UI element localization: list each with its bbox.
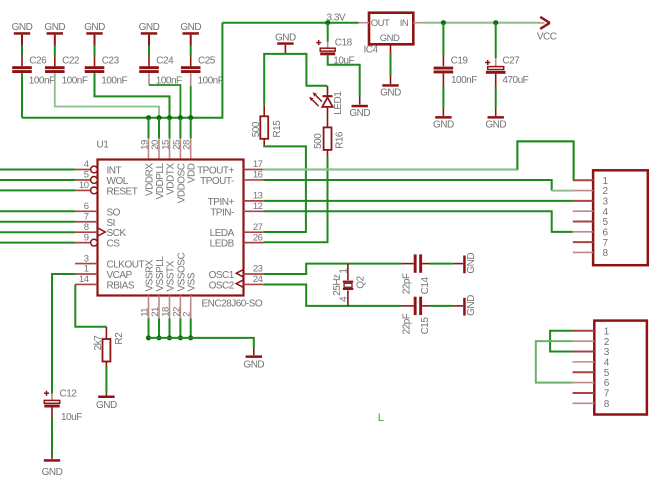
svg-text:500: 500 (251, 121, 262, 137)
svg-text:18: 18 (161, 307, 172, 317)
resistor R15 500 (251, 105, 283, 145)
svg-text:RBIAS: RBIAS (107, 280, 135, 291)
wire VDD rail to U1 pin 19 (148, 118, 150, 139)
pin stub U1 pin 17 (244, 159, 264, 170)
capacitor C14 22pF (401, 254, 431, 294)
IC U1 ENC28J60-SO (97, 140, 263, 310)
svg-text:10uF: 10uF (61, 412, 82, 423)
pin stub U1 pin 11 (140, 296, 151, 319)
svg-text:17: 17 (253, 159, 263, 170)
svg-text:14: 14 (79, 274, 89, 285)
wire SCK to left edge (0, 231, 75, 233)
ground below U1 (243, 349, 264, 371)
supply symbol VCC (537, 17, 557, 43)
wire VDD rail to U1 pin 28 (190, 118, 192, 139)
wire TPOUT+ to SV1 pin 1 (263, 141, 573, 180)
pin stub U1 pin 22 (171, 296, 182, 319)
wire CS to left edge (0, 242, 75, 244)
wire VCC tap to C19 (442, 23, 444, 56)
ground above C23 (84, 22, 105, 46)
svg-text:C23: C23 (102, 56, 120, 67)
svg-text:4: 4 (84, 159, 89, 170)
svg-text:25Hz: 25Hz (332, 274, 343, 296)
junction node ground rail / pin 11 (146, 335, 151, 340)
pin stub U1 pin 18 (161, 296, 172, 319)
svg-text:GND: GND (380, 33, 400, 44)
pin stub U1 pin 2 (182, 296, 193, 319)
svg-text:VSSTX: VSSTX (166, 260, 177, 291)
svg-text:CS: CS (107, 239, 121, 250)
svg-text:OSC2: OSC2 (209, 280, 235, 291)
svg-text:27: 27 (253, 222, 263, 233)
svg-text:SO: SO (107, 207, 121, 218)
wire TPIN- to SV1 pin 6 (263, 211, 573, 232)
svg-text:2: 2 (182, 312, 193, 317)
svg-text:100nF: 100nF (62, 76, 88, 87)
pin stub U1 pin 15 (169, 138, 171, 159)
svg-text:IC4: IC4 (364, 44, 379, 55)
svg-text:23: 23 (253, 264, 263, 275)
wire GND to C25 (190, 46, 192, 57)
svg-text:VDDRX: VDDRX (145, 163, 156, 196)
wire RBIAS to R2 (75, 284, 106, 326)
svg-text:LEDB: LEDB (210, 239, 235, 250)
svg-text:R2: R2 (114, 332, 125, 345)
svg-text:L: L (378, 412, 384, 424)
wire OSC2 to crystal rail (263, 284, 401, 305)
svg-text:10: 10 (79, 180, 89, 191)
junction node VDD rail / pin column 4 (178, 115, 183, 120)
resistor R2 2k7 (93, 327, 125, 367)
wire VDD rail to U1 pin 20 (158, 118, 160, 139)
label 3.3V (327, 13, 346, 24)
svg-text:VCC: VCC (537, 32, 557, 43)
ground below R2 (96, 393, 117, 411)
svg-text:GND: GND (349, 108, 370, 119)
pin number 28 (182, 140, 193, 150)
svg-text:IN: IN (400, 18, 409, 29)
svg-text:22pF: 22pF (401, 313, 412, 334)
svg-text:5: 5 (84, 170, 89, 181)
svg-text:20: 20 (150, 140, 161, 150)
ground below C12 (42, 455, 63, 478)
svg-text:15: 15 (161, 140, 172, 150)
pin number 15 (161, 140, 172, 150)
svg-text:C14: C14 (420, 277, 431, 295)
svg-text:500: 500 (313, 133, 324, 149)
svg-text:R16: R16 (334, 131, 345, 149)
pin stub U1 pin 19 (148, 138, 150, 159)
wire C27 to ground (495, 87, 497, 108)
junction node VDD rail / pin column 2 (157, 115, 162, 120)
svg-text:VDD: VDD (187, 163, 198, 183)
svg-text:GND: GND (96, 400, 117, 411)
svg-text:100nF: 100nF (198, 76, 224, 87)
svg-text:C19: C19 (451, 55, 469, 66)
svg-text:100nF: 100nF (451, 75, 477, 86)
svg-text:C25: C25 (198, 56, 216, 67)
wire ground rail (149, 338, 254, 349)
pin stub U1 pin 3 (75, 253, 98, 264)
ground right of C15 (453, 295, 477, 316)
svg-text:Q2: Q2 (356, 275, 367, 288)
pin lead C24 (148, 73, 150, 85)
pin stub U1 pin 13 (244, 191, 264, 202)
svg-text:SCK: SCK (107, 228, 127, 239)
svg-text:24: 24 (253, 274, 263, 285)
svg-text:12: 12 (253, 201, 263, 212)
pin stub U1 pin 16 (244, 170, 264, 181)
junction node ground rail / pin 21 (157, 335, 162, 340)
wire TPOUT- pale segment into SV1 pin 2 (552, 190, 573, 192)
pin stub U1 pin 7 (75, 211, 98, 222)
svg-text:GND: GND (466, 295, 477, 316)
resistor R16 500 (313, 127, 345, 157)
svg-text:7: 7 (84, 211, 89, 222)
wire GND to C22 (54, 46, 56, 57)
wire 3.3V to C18 (327, 23, 329, 42)
svg-text:C24: C24 (156, 56, 174, 67)
wire C24 to VDD rail (149, 85, 180, 118)
svg-text:28: 28 (182, 140, 193, 150)
capacitor C24 100nF (139, 56, 182, 87)
capacitor C18 10uF (316, 37, 354, 66)
wire WOL to left edge (0, 179, 75, 181)
wire LED-section ground rail (264, 54, 327, 105)
svg-text:100nF: 100nF (29, 76, 55, 87)
svg-text:GND: GND (84, 22, 105, 33)
pin stub U1 pin 26 (244, 232, 264, 243)
svg-text:TPOUT+: TPOUT+ (197, 166, 234, 177)
junction node C27 tap (493, 20, 498, 25)
wire C26 to VDD rail (21, 73, 23, 118)
svg-text:1: 1 (84, 264, 89, 275)
wire R16 to U1 LEDB (263, 157, 327, 242)
svg-text:GND: GND (433, 120, 454, 131)
capacitor C19 100nF (434, 55, 478, 86)
pin stub U1 pin 4 (75, 159, 97, 173)
pin stub U1 pin 14 (75, 274, 98, 285)
svg-text:26: 26 (253, 232, 263, 243)
svg-text:100nF: 100nF (101, 76, 127, 87)
wire U1 pin 21 to ground rail (158, 318, 160, 338)
svg-text:3: 3 (84, 253, 89, 264)
junction node ground rail / pin 2 (188, 335, 193, 340)
svg-text:LED1: LED1 (333, 91, 344, 115)
junction node C19 tap (441, 20, 446, 25)
svg-text:U1: U1 (97, 140, 110, 151)
pin number 25 (171, 140, 182, 150)
wire R15 to U1 LEDA (263, 145, 306, 232)
svg-text:6: 6 (84, 201, 89, 212)
wire R2 to ground (105, 367, 107, 394)
svg-text:GND: GND (466, 253, 477, 274)
svg-text:C27: C27 (502, 55, 520, 66)
pin number 19 (140, 140, 151, 150)
pin stub U1 pin 5 (75, 170, 97, 184)
svg-text:VSSRX: VSSRX (145, 259, 156, 291)
capacitor C25 100nF (181, 56, 224, 87)
pin stub U1 pin 20 (158, 138, 160, 159)
svg-text:VCAP: VCAP (107, 270, 133, 281)
ground above C25 (180, 22, 201, 46)
voltage regulator IC4 (359, 13, 423, 56)
wire GND to C23 (94, 46, 96, 57)
svg-text:INT: INT (107, 166, 122, 177)
capacitor C22 100nF (45, 56, 88, 87)
ground above C24 (139, 22, 160, 46)
ground below C19 (433, 107, 454, 130)
wire C19 to ground (442, 87, 444, 108)
crystal Q2 25Hz (332, 264, 367, 306)
wire TPIN+ to SV1 pin 3 (263, 200, 573, 202)
pin stub U1 pin 25 (179, 138, 181, 159)
svg-text:13: 13 (253, 191, 263, 202)
wire IC4 GND pin down (390, 53, 392, 76)
wire C25 to VDD rail (190, 86, 192, 118)
ground below C27 (485, 107, 506, 130)
pin stub U1 pin 6 (75, 201, 98, 212)
capacitor C27 470uF (485, 55, 528, 86)
pin lead C25 (190, 73, 192, 86)
pin stub U1 pin 1 (75, 264, 98, 275)
wire INT to left edge (0, 169, 75, 171)
pin stub U1 pin 28 (190, 138, 192, 159)
capacitor C23 100nF (85, 56, 128, 87)
svg-text:GND: GND (485, 120, 506, 131)
svg-text:470uF: 470uF (502, 75, 528, 86)
pin stub U1 pin 24 (244, 274, 264, 285)
svg-text:GND: GND (275, 32, 296, 43)
wire GND to C24 (148, 46, 150, 57)
svg-text:16: 16 (253, 170, 263, 181)
svg-text:9: 9 (84, 232, 89, 243)
junction node VDD rail / pin column 1 (146, 115, 151, 120)
wire C23 to VDD rail (95, 73, 170, 118)
wire VDD rail to U1 pin 25 (179, 118, 181, 139)
svg-text:8: 8 (84, 222, 89, 233)
wire C15 to ground (430, 305, 453, 307)
junction node VDD rail / pin column 3 (167, 115, 172, 120)
pin stub U1 pin 10 (75, 180, 97, 194)
svg-text:WOL: WOL (107, 176, 129, 187)
pin stub U1 pin 9 (75, 232, 97, 246)
wire C12 to ground (51, 418, 53, 455)
svg-text:VDDPLL: VDDPLL (155, 163, 166, 200)
junction node ground rail / pin 22 (178, 335, 183, 340)
capacitor C26 100nF (12, 56, 55, 87)
wire OSC1 to crystal rail (263, 264, 401, 274)
svg-text:SI: SI (107, 218, 115, 229)
connector SV2 (573, 321, 647, 415)
junction node VDD rail / pin column 5 (188, 115, 193, 120)
ground above C26 (12, 22, 33, 46)
wire TPOUT- to SV1 pin 2 (263, 180, 551, 191)
wire SV2 pin 1 to pin 3 (550, 331, 572, 352)
ground right of C14 (453, 253, 477, 274)
pin stub U1 pin 21 (150, 296, 161, 319)
svg-text:TPIN-: TPIN- (210, 207, 234, 218)
wire C22 to VDD rail (55, 73, 159, 118)
svg-text:LEDA: LEDA (210, 228, 235, 239)
ground below C18 (349, 97, 370, 120)
junction node ground rail / pin 18 (167, 335, 172, 340)
svg-text:CLKOUT: CLKOUT (107, 260, 145, 271)
wire C18 to ground (328, 55, 360, 96)
wire U1 pin 22 to ground rail (179, 318, 181, 338)
svg-text:GND: GND (139, 22, 160, 33)
ground above C22 (44, 22, 65, 46)
svg-text:TPIN+: TPIN+ (208, 197, 235, 208)
wire RESET to left edge (0, 189, 75, 191)
wire U1 pin 11 to ground rail (148, 318, 150, 338)
svg-text:19: 19 (140, 140, 151, 150)
svg-text:RESET: RESET (107, 186, 138, 197)
pin stub U1 pin 27 (244, 222, 264, 233)
svg-text:C26: C26 (29, 56, 47, 67)
svg-text:GND: GND (180, 22, 201, 33)
capacitor C15 22pF (401, 297, 431, 335)
pin stub U1 pin 23 (244, 264, 264, 275)
wire SV2 pin 2 to pin 6 (536, 341, 573, 382)
svg-text:TPOUT-: TPOUT- (200, 176, 234, 187)
wire TPOUT+ riser solid part (517, 141, 573, 180)
svg-text:11: 11 (140, 308, 151, 317)
wire GND to C26 (21, 46, 23, 57)
wire VDD rail to U1 pin 15 (169, 118, 171, 139)
svg-text:GND: GND (380, 88, 401, 99)
svg-text:2k7: 2k7 (93, 335, 104, 351)
wire VDD rail (22, 23, 222, 118)
svg-text:GND: GND (44, 22, 65, 33)
wire SI to left edge (0, 221, 75, 223)
wire SO to left edge (0, 210, 75, 212)
pin stub U1 pin 8 (75, 222, 98, 233)
ground above LED section (275, 32, 296, 54)
net label L (378, 412, 384, 424)
led LED1 (309, 86, 344, 128)
wire VCAP to C12 (52, 274, 75, 394)
wire 3.3V net to IC4 OUT (222, 22, 358, 24)
svg-text:GND: GND (12, 22, 33, 33)
svg-text:R15: R15 (272, 120, 283, 138)
wire C14 to ground (430, 263, 453, 265)
connector SV1 (573, 170, 648, 265)
svg-text:C18: C18 (335, 37, 353, 48)
svg-text:VDDTX: VDDTX (166, 163, 177, 195)
svg-text:21: 21 (150, 307, 161, 317)
junction node C18 tap (325, 20, 330, 25)
wire VCC tap to C27 (495, 23, 497, 58)
svg-text:C22: C22 (62, 56, 80, 67)
svg-text:GND: GND (243, 359, 264, 370)
capacitor C12 10uF (44, 389, 82, 424)
svg-text:22pF: 22pF (401, 273, 412, 294)
svg-text:OSC1: OSC1 (209, 270, 235, 281)
svg-text:C15: C15 (420, 317, 431, 335)
svg-text:VSSPLL: VSSPLL (155, 256, 166, 292)
wire U1 pin 2 to ground rail (190, 318, 192, 338)
pin stub U1 pin 12 (244, 201, 264, 212)
ground below IC4 (380, 76, 401, 99)
wire IC4 IN to VCC (422, 22, 538, 24)
wire U1 pin 18 to ground rail (169, 318, 171, 338)
svg-text:C12: C12 (60, 389, 78, 400)
svg-text:OUT: OUT (371, 18, 390, 29)
svg-text:GND: GND (42, 467, 63, 478)
svg-text:ENC28J60-SO: ENC28J60-SO (202, 298, 263, 309)
svg-text:VSS: VSS (187, 272, 198, 291)
pin number 20 (150, 140, 161, 150)
